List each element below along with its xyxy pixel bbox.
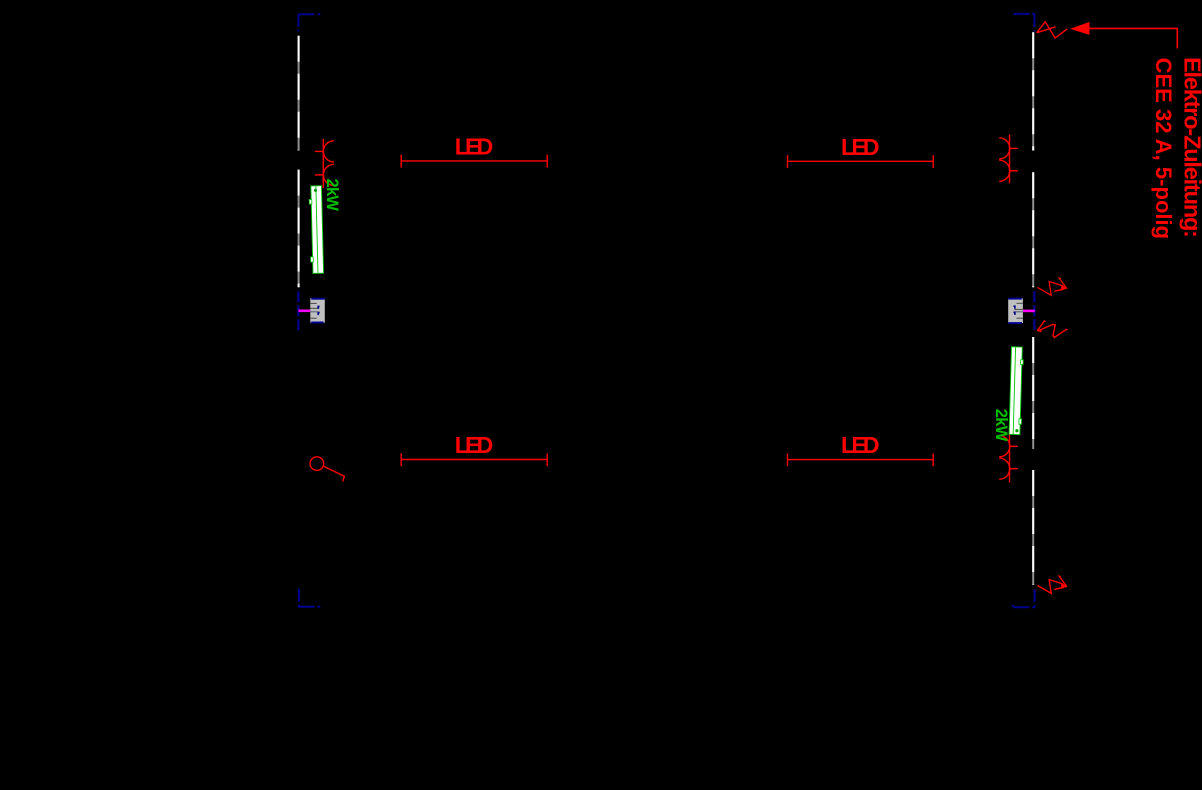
zigzag + feed arrow at top right wall bbox=[1037, 22, 1090, 38]
zigzag outlet symbol B (right wall, y=330, arrow at wall) bbox=[1037, 321, 1068, 338]
svg-text:2kW: 2kW bbox=[323, 179, 341, 212]
wall right: blue insert segment bbox=[1033, 291, 1035, 331]
dimension LED bottom-right bbox=[788, 453, 934, 466]
CEE wall box left (gray connector) bbox=[298, 298, 324, 323]
svg-text:LED: LED bbox=[841, 432, 880, 458]
socket outlet (double) right wall lower bbox=[999, 434, 1018, 482]
wall left: top corner bracket bbox=[298, 14, 320, 32]
socket outlet (double) left wall bbox=[315, 139, 334, 188]
wall left: bottom corner bracket bbox=[298, 589, 320, 607]
socket outlet (double) right wall upper bbox=[999, 135, 1018, 184]
switch (red circle + lever) bbox=[310, 457, 344, 482]
svg-text:2kW: 2kW bbox=[992, 409, 1010, 442]
svg-text:Elektro-Zuleitung:: Elektro-Zuleitung: bbox=[1179, 57, 1202, 238]
wall left: gray dashed wall line bbox=[298, 36, 300, 288]
wall right: bottom corner bracket bbox=[1013, 589, 1035, 607]
svg-text:CEE 32 A, 5-polig: CEE 32 A, 5-polig bbox=[1151, 58, 1176, 240]
leader line to label bbox=[1090, 28, 1178, 48]
svg-text:LED: LED bbox=[841, 134, 880, 160]
dimension LED bottom-left bbox=[401, 453, 547, 466]
dimension LED top-right bbox=[788, 155, 934, 168]
dimension LED top-left bbox=[401, 155, 547, 168]
heater 2kW right bbox=[1009, 347, 1024, 435]
heater 2kW left bbox=[309, 186, 324, 274]
wall right: gray dashed wall line bbox=[1032, 32, 1034, 584]
svg-text:LED: LED bbox=[455, 134, 494, 160]
wall left: blue insert segment bbox=[297, 291, 299, 331]
svg-text:LED: LED bbox=[455, 432, 494, 458]
wall right: top corner bracket bbox=[1013, 14, 1034, 32]
zigzag outlet symbol A2 (right wall, y=585) bbox=[1038, 576, 1068, 593]
zigzag outlet symbol A (right wall, y=287) bbox=[1038, 278, 1068, 295]
CEE wall box right (gray connector, mirrored) bbox=[1008, 298, 1035, 323]
